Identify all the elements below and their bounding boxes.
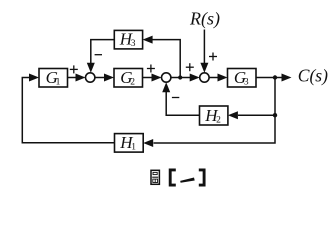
arrowhead H2 into sum2 bottom (162, 82, 170, 92)
wire: G1 to sum1 (68, 77, 79, 79)
arrowhead into H3 (143, 36, 153, 44)
label R(s) (189, 9, 220, 30)
node C junction dot (273, 113, 277, 117)
caption bracket 【 (170, 170, 176, 185)
block H1 (115, 134, 144, 153)
caption bracket 】 (199, 170, 204, 185)
wire: H3 output left and down into sum1 (91, 40, 115, 64)
svg-text:1: 1 (56, 77, 61, 87)
wire: left feedback H1 output up to G1 input (22, 78, 114, 143)
block H3 (114, 30, 142, 49)
arrowhead into G3 (218, 74, 228, 82)
plus sign at sum2 left input (147, 65, 155, 73)
arrowhead output C(s) (282, 74, 292, 82)
arrowhead into sum3 (190, 74, 200, 82)
wire: G3 to output C(s) through node B (256, 77, 284, 79)
arrowhead into G2 (104, 74, 114, 82)
minus sign at sum1 top input (95, 54, 102, 56)
arrowhead into sum1 (76, 74, 86, 82)
label H2 (204, 106, 221, 126)
label C(s) (298, 66, 328, 86)
wire: G2 to sum2 (143, 77, 154, 79)
block G3 (228, 69, 257, 88)
node A junction dot (178, 75, 182, 79)
label G3 (234, 68, 249, 87)
wire: sum3 to G3 (209, 77, 219, 79)
arrowhead into H1 (143, 139, 153, 147)
arrowhead into sum2 (152, 74, 162, 82)
arrowhead into H2 (228, 111, 238, 119)
arrowhead into G1 (29, 74, 39, 82)
wire: node B down to H1 feedback level (154, 78, 276, 144)
summing junction sum1 (86, 73, 95, 82)
node B junction dot (273, 75, 277, 79)
arrowhead R(s) into sum3 top (200, 63, 208, 73)
label H1 (119, 133, 136, 153)
svg-text:3: 3 (131, 39, 136, 49)
label G2 (120, 68, 135, 87)
label H3 (119, 30, 136, 50)
minus sign at sum2 bottom input (172, 97, 179, 99)
plus sign at sum3 left input (186, 63, 194, 71)
arrowhead H3 into sum1 top (87, 63, 95, 73)
svg-text:3: 3 (244, 77, 249, 87)
wire: R(s) input down into sum3 (203, 30, 205, 65)
wire: node C left into H2 input (238, 114, 275, 116)
svg-text:2: 2 (216, 115, 221, 125)
plus sign at sum1 left input (70, 65, 78, 73)
wire: sum2 bottom down and right to H2 output (166, 92, 199, 116)
block G2 (114, 69, 143, 88)
wire: node A up and left into H3 input (152, 40, 181, 78)
label G1 (46, 68, 61, 87)
plus sign at sum3 top input R(s) (209, 53, 217, 61)
block H2 (200, 106, 228, 125)
wire: sum1 to G2 (95, 77, 106, 79)
svg-text:1: 1 (131, 142, 136, 152)
summing junction sum3 (200, 73, 209, 82)
caption glyph 圖 (151, 170, 159, 184)
svg-text:R(s): R(s) (189, 9, 220, 30)
block G1 (39, 69, 68, 88)
summing junction sum2 (162, 73, 171, 82)
svg-text:2: 2 (130, 77, 135, 87)
svg-text:C(s): C(s) (298, 66, 328, 86)
caption glyph 一 (180, 178, 195, 183)
wire: sum2 to sum3 through node A (171, 77, 192, 79)
